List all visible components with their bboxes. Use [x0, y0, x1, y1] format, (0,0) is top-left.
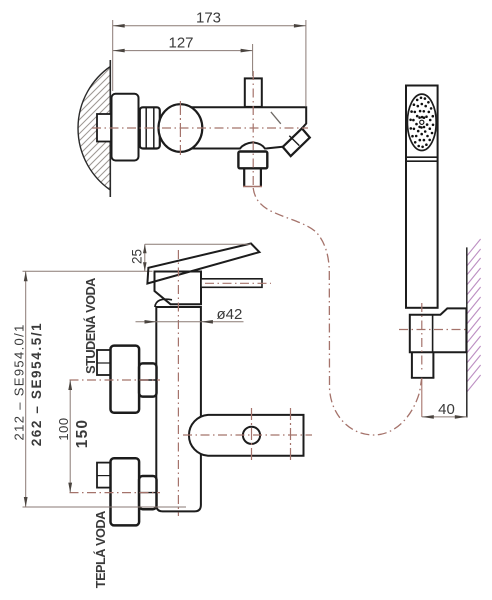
bracket second axis	[290, 408, 292, 462]
bracket centerline horizontal	[183, 434, 312, 436]
shower hose nut top view	[238, 152, 267, 169]
svg-text:173: 173	[196, 10, 221, 27]
dimension 25	[130, 244, 252, 271]
hex connection nut top view	[140, 107, 160, 148]
cold water centerline	[70, 379, 161, 381]
wall inlet protrusion	[97, 114, 111, 142]
bracket hole axis	[251, 408, 253, 462]
column axis centerline	[177, 250, 179, 516]
cold eccentric union	[111, 346, 140, 413]
neck dome under head	[155, 299, 172, 307]
shower hose stem top view	[243, 168, 262, 186]
dimension dia 42	[136, 306, 244, 324]
shower face oval	[407, 94, 436, 150]
wall bracket with hole front view	[189, 415, 304, 456]
shower holder bracket	[410, 308, 467, 352]
escutcheon flange	[112, 94, 139, 161]
diverter knob top view	[245, 78, 262, 107]
cold connection nut	[139, 363, 156, 396]
holder centerline horizontal	[399, 329, 466, 331]
cold wall hex fitting	[97, 350, 111, 375]
svg-text:262 – SE954.5/1: 262 – SE954.5/1	[29, 322, 44, 447]
ball vertical centerline	[179, 101, 181, 155]
svg-text:TEPLÁ VODA: TEPLÁ VODA	[93, 511, 108, 588]
hand shower body	[406, 86, 438, 308]
svg-text:ø42: ø42	[217, 306, 243, 323]
spout nozzle 45deg	[283, 128, 310, 156]
svg-text:100: 100	[56, 417, 71, 440]
shower hose centerline curve	[253, 188, 421, 435]
dimension 100 150	[56, 380, 91, 493]
mixer head front view	[155, 272, 202, 305]
svg-text:212 – SE954.0/1: 212 – SE954.0/1	[12, 323, 27, 440]
extension line top of front view	[23, 270, 153, 272]
dimension 127	[113, 34, 253, 76]
holder axis vertical	[421, 303, 423, 372]
dimension 40	[422, 378, 467, 419]
body column front view	[156, 307, 201, 511]
lever side bar	[201, 279, 271, 288]
holder stem	[411, 352, 435, 378]
body tube top view	[190, 107, 306, 148]
svg-text:150: 150	[74, 419, 91, 448]
diverter axis centerline	[252, 71, 254, 186]
svg-text:40: 40	[438, 401, 455, 418]
ball joint	[159, 104, 203, 152]
wall left hatched	[0, 0, 311, 210]
dimension 212/262 overall	[12, 271, 186, 507]
hot connection nut	[139, 476, 156, 509]
dimension 173	[113, 10, 306, 106]
svg-text:127: 127	[168, 34, 193, 51]
hot water centerline	[70, 492, 161, 494]
shower spray nozzle dots	[409, 97, 434, 149]
hot eccentric union	[111, 458, 140, 525]
wall right hatched	[467, 239, 481, 418]
hot wall hex fitting	[97, 463, 111, 488]
svg-text:25: 25	[130, 249, 145, 264]
svg-text:STUDENÁ VODA: STUDENÁ VODA	[83, 278, 98, 374]
inlet centerline top view	[92, 127, 308, 129]
lever handle	[147, 244, 259, 284]
